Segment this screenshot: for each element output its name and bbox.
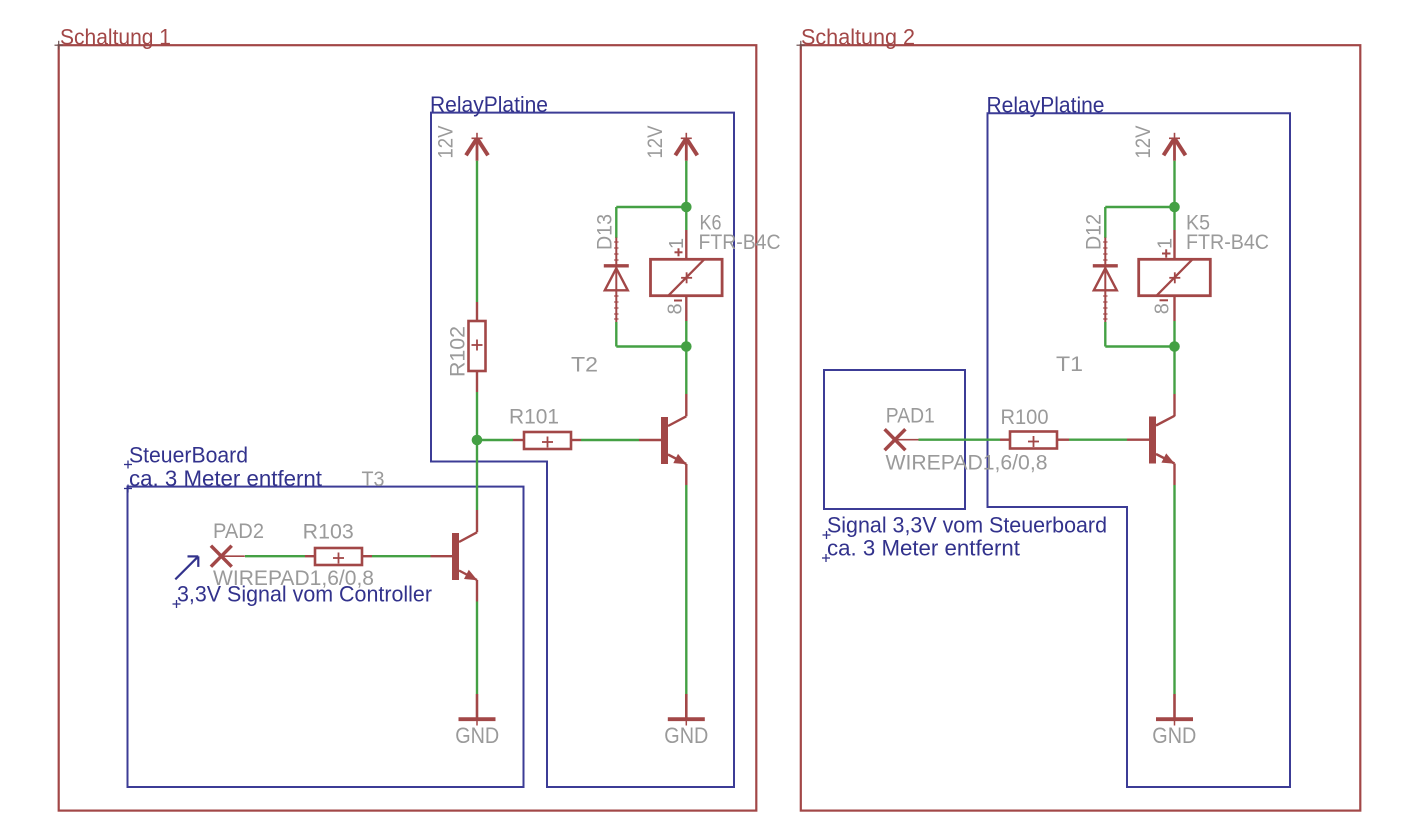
node A junction <box>472 435 483 446</box>
resistor R100 <box>1000 439 1010 441</box>
svg-text:RelayPlatine: RelayPlatine <box>430 92 548 117</box>
wire relay pin 8 to node E <box>1173 321 1175 347</box>
node D junction <box>1169 202 1180 213</box>
relay K6 pin 1 <box>685 230 687 259</box>
wire T2 emitter to GND <box>685 485 687 694</box>
T1 base pin <box>1127 439 1149 441</box>
svg-text:D12: D12 <box>1083 214 1106 250</box>
wire 12V to R102 <box>476 161 478 302</box>
svg-text:3,3V Signal vom Controller: 3,3V Signal vom Controller <box>177 582 432 607</box>
annotation arrow <box>175 556 198 579</box>
module frame SteuerBoard <box>128 487 524 787</box>
wire R103 to T3 base <box>372 555 431 557</box>
T2 emitter pin <box>685 464 687 485</box>
frame Schaltung 2 <box>801 45 1361 810</box>
wire node D to D12 branch <box>1105 206 1174 208</box>
node B junction <box>681 202 692 213</box>
wire node D to relay pin 1 <box>1173 207 1175 230</box>
svg-text:12V: 12V <box>435 126 458 159</box>
svg-text:Schaltung 2: Schaltung 2 <box>801 25 915 50</box>
node C junction <box>681 341 692 352</box>
wire D12 anode down <box>1104 322 1106 347</box>
svg-text:WIREPAD1,6/0,8: WIREPAD1,6/0,8 <box>886 452 1048 475</box>
svg-text:FTR-B4C: FTR-B4C <box>1186 231 1269 254</box>
ground (SteuerBoard) <box>476 694 479 718</box>
diode D13 <box>615 238 617 323</box>
svg-text:GND: GND <box>664 723 708 748</box>
wire to D13 cathode <box>615 207 617 238</box>
ground (relay column) <box>685 694 688 718</box>
svg-text:R102: R102 <box>447 326 470 377</box>
wire D12 branch to node E <box>1105 345 1174 347</box>
module frame PAD1 box <box>824 370 965 509</box>
relay coil K6 <box>651 259 723 295</box>
T1 emitter pin <box>1173 464 1175 486</box>
svg-text:FTR-B4C: FTR-B4C <box>699 231 781 254</box>
wire PAD2 to R103 <box>245 555 305 557</box>
relay K6 pin 8 <box>685 296 687 321</box>
supply +12V (left column) <box>466 133 488 161</box>
wire R100 to T1 base <box>1069 439 1127 441</box>
wire R102 to node A <box>476 392 478 440</box>
svg-text:R103: R103 <box>303 521 354 544</box>
resistor R103 <box>305 555 315 557</box>
wire node A to T3 collector <box>476 440 478 510</box>
svg-text:Schaltung 1: Schaltung 1 <box>60 25 171 50</box>
ground (right) <box>1173 694 1176 718</box>
T3 collector pin <box>476 510 478 532</box>
wire node B to D13 branch <box>616 206 686 208</box>
wire relay pin 8 to node C <box>685 321 687 347</box>
svg-text:12V: 12V <box>1132 126 1155 159</box>
module frame RelayPlatine <box>431 113 734 787</box>
svg-text:T3: T3 <box>362 468 385 491</box>
wire 12V to node D <box>1173 161 1175 207</box>
svg-text:T1: T1 <box>1056 353 1083 376</box>
wire node B to relay pin 1 <box>685 207 687 230</box>
svg-text:D13: D13 <box>594 214 617 250</box>
frame Schaltung 1 <box>59 45 757 810</box>
wire D13 anode down <box>615 322 617 347</box>
wire T3 emitter to GND <box>476 602 478 695</box>
wire node C to T2 collector <box>685 347 687 395</box>
svg-text:1: 1 <box>1155 238 1177 249</box>
svg-text:SteuerBoard: SteuerBoard <box>129 443 248 468</box>
wire R101 to T2 base <box>581 439 639 441</box>
svg-text:GND: GND <box>455 723 499 748</box>
T3 emitter pin <box>476 580 478 602</box>
frame 2 origin cross <box>797 41 806 50</box>
wire T1 emitter to GND <box>1173 485 1175 694</box>
T3 base pin <box>431 555 453 557</box>
T2 base pin <box>639 439 661 441</box>
svg-text:Signal 3,3V vom Steuerboard: Signal 3,3V vom Steuerboard <box>827 513 1107 538</box>
polarity mark + <box>1162 249 1171 257</box>
svg-text:ca. 3 Meter entfernt: ca. 3 Meter entfernt <box>827 536 1020 561</box>
svg-text:RelayPlatine: RelayPlatine <box>987 93 1105 118</box>
polarity mark + <box>675 248 683 256</box>
svg-text:GND: GND <box>1152 723 1196 748</box>
relay coil K5 <box>1139 259 1211 295</box>
svg-text:12V: 12V <box>644 126 667 159</box>
transistor T3 <box>452 532 477 580</box>
svg-text:PAD1: PAD1 <box>886 405 935 428</box>
relay K5 pin 1 <box>1173 230 1175 259</box>
relay K5 pin 8 <box>1173 296 1175 321</box>
supply +12V (relay column) <box>675 133 697 161</box>
T2 collector pin <box>685 394 687 416</box>
transistor T2 <box>661 416 687 464</box>
node E junction <box>1169 341 1180 352</box>
resistor R102 <box>476 302 478 321</box>
wire D13 branch to node C <box>616 345 686 347</box>
polarity mark - <box>1160 299 1169 301</box>
supply +12V (right) <box>1164 133 1186 161</box>
wire node A to R101 <box>482 439 513 441</box>
svg-text:R100: R100 <box>1001 406 1049 429</box>
resistor R101 <box>513 439 524 441</box>
svg-text:1: 1 <box>666 238 688 249</box>
wirepad PAD2 <box>211 546 245 567</box>
T1 collector pin <box>1173 394 1175 416</box>
frame 1 origin cross <box>55 41 64 50</box>
wire to D12 cathode <box>1104 207 1106 238</box>
polarity mark - <box>674 300 682 302</box>
transistor T1 <box>1149 416 1175 464</box>
svg-text:8: 8 <box>665 303 687 314</box>
svg-text:PAD2: PAD2 <box>213 520 264 543</box>
svg-text:T2: T2 <box>571 354 598 377</box>
module frame RelayPlatine 2 <box>988 113 1291 787</box>
wire 12V to node B <box>685 161 687 207</box>
wire node E to T1 collector <box>1173 347 1175 395</box>
diode D12 <box>1104 238 1106 323</box>
wire PAD1 to R100 <box>919 439 1001 441</box>
wirepad PAD1 <box>885 429 919 450</box>
svg-text:8: 8 <box>1152 303 1174 314</box>
svg-text:R101: R101 <box>509 406 559 429</box>
svg-text:ca. 3 Meter entfernt: ca. 3 Meter entfernt <box>129 466 322 491</box>
